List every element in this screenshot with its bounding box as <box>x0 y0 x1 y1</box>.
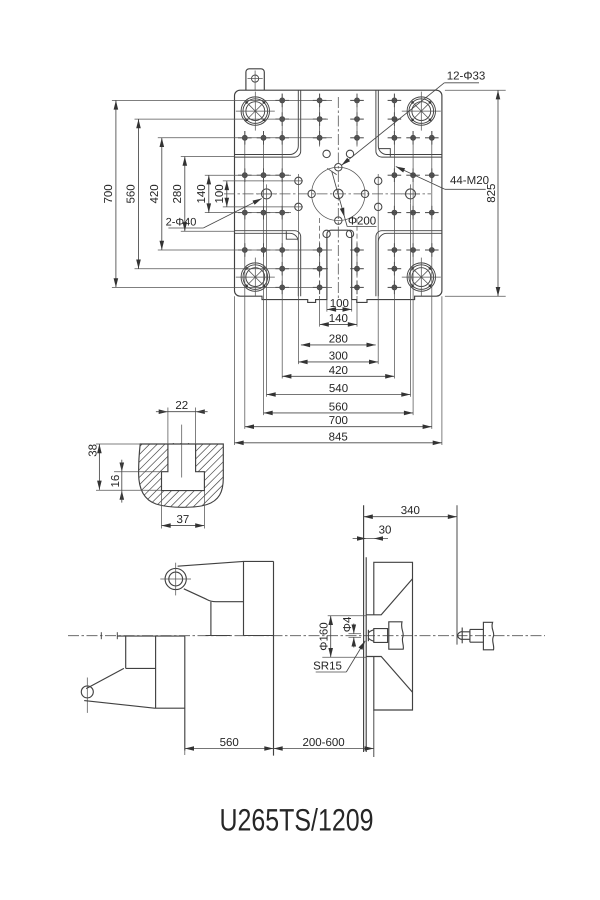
svg-text:140: 140 <box>196 184 208 203</box>
dimension Phi160 <box>328 615 367 617</box>
side view lower bracket (movable platen, open position) <box>100 632 102 639</box>
svg-text:280: 280 <box>329 333 348 345</box>
dimension 560 <box>185 748 274 750</box>
svg-text:100: 100 <box>330 298 349 310</box>
svg-text:30: 30 <box>379 525 392 537</box>
svg-text:2-Φ40: 2-Φ40 <box>166 217 197 229</box>
svg-text:100: 100 <box>214 184 226 203</box>
svg-text:280: 280 <box>172 184 184 203</box>
svg-text:420: 420 <box>149 184 161 203</box>
svg-text:540: 540 <box>329 383 348 395</box>
svg-text:560: 560 <box>126 184 138 203</box>
platen outline <box>235 90 442 302</box>
dimension &#934;160 <box>330 616 332 657</box>
dimension 420 <box>282 375 394 377</box>
row centre/extension lines <box>112 286 332 288</box>
dimension Phi4 <box>349 633 362 635</box>
dimension 100 <box>327 308 352 310</box>
dimension 300 <box>298 361 378 363</box>
dimension 700 <box>245 426 432 428</box>
svg-text:U265TS/1209: U265TS/1209 <box>220 803 374 838</box>
svg-text:300: 300 <box>329 350 348 362</box>
svg-text:560: 560 <box>329 401 348 413</box>
dimension 200-600 <box>274 748 374 750</box>
side view stationary platen <box>363 505 365 752</box>
svg-text:200-600: 200-600 <box>302 737 344 749</box>
tie bar holes <box>241 97 269 125</box>
T-slot boss outline <box>139 444 224 507</box>
12 medium holes (12-[Phi]33) <box>335 164 342 171</box>
svg-text:16: 16 <box>110 475 122 488</box>
dimension 140 <box>320 323 357 325</box>
svg-text:140: 140 <box>329 313 348 325</box>
svg-text:700: 700 <box>329 415 348 427</box>
nozzle seated <box>368 630 373 641</box>
hatching <box>55 431 330 516</box>
dimension 420 <box>161 138 163 250</box>
dimension 280 <box>184 157 186 232</box>
svg-text:12-Φ33: 12-Φ33 <box>447 71 486 83</box>
dimension 37 <box>162 525 205 527</box>
svg-text:37: 37 <box>177 514 190 526</box>
svg-text:Φ200: Φ200 <box>348 215 376 227</box>
svg-text:SR15: SR15 <box>313 661 342 673</box>
side view upper bracket (movable platen, closed position) <box>165 568 186 589</box>
[Phi]200 circle <box>312 167 365 220</box>
dimension 100 <box>226 181 228 207</box>
svg-text:Φ4: Φ4 <box>342 616 354 632</box>
svg-text:44-M20: 44-M20 <box>450 175 489 187</box>
svg-text:700: 700 <box>103 184 115 203</box>
svg-text:Φ160: Φ160 <box>319 622 331 650</box>
svg-text:38: 38 <box>87 444 99 457</box>
svg-text:560: 560 <box>220 737 239 749</box>
dimension 560 <box>264 412 414 414</box>
centre hole <box>334 189 344 199</box>
dimension 280 <box>301 344 376 346</box>
svg-text:845: 845 <box>329 431 348 443</box>
svg-text:22: 22 <box>175 400 188 412</box>
svg-text:340: 340 <box>401 505 420 517</box>
svg-text:420: 420 <box>329 365 348 377</box>
centrelines <box>337 97 339 300</box>
detached nozzle <box>456 505 458 644</box>
corner pocket L-lines <box>235 90 299 154</box>
dimension 825 <box>497 90 499 296</box>
dimension 560 <box>138 119 140 269</box>
dimension 845 <box>235 442 442 444</box>
T-slot profile <box>162 444 205 491</box>
dimension 22 <box>168 411 196 413</box>
dimension 38 <box>98 444 100 490</box>
dimension 540 <box>267 394 411 396</box>
column centre/extension lines <box>431 131 433 429</box>
locating cone <box>366 579 412 693</box>
dimension 140 <box>208 175 210 212</box>
side view: machine axis centreline <box>68 635 545 637</box>
dimension 340 <box>364 516 457 518</box>
lifting lug tab <box>246 69 264 90</box>
M20 tapped holes 44x <box>429 248 434 253</box>
dimension 16 <box>121 472 123 491</box>
2-[Phi]40 holes <box>262 189 272 199</box>
dimension 700 <box>115 100 117 287</box>
